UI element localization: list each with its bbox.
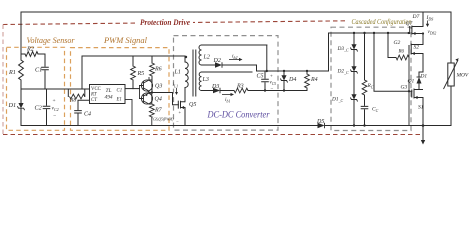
wire L2 top drop: [266, 45, 268, 72]
transformer core: [193, 50, 196, 96]
svg-text:R6: R6: [398, 50, 405, 55]
label C2: [35, 105, 42, 112]
diode D5: [318, 123, 325, 129]
label Q4: [155, 96, 162, 103]
label R2: [26, 46, 34, 53]
svg-text:R1: R1: [8, 69, 16, 76]
svg-text:D4: D4: [288, 76, 296, 83]
svg-text:L3: L3: [202, 77, 209, 83]
transistor S2: [409, 44, 423, 58]
svg-text:L2: L2: [203, 55, 210, 61]
wire Q7 drain to rail: [422, 12, 424, 27]
svg-text:Q5: Q5: [189, 102, 196, 108]
wire VS mid node: [21, 88, 90, 90]
svg-text:D1: D1: [8, 102, 17, 109]
wire S1 source to rail: [422, 98, 425, 127]
svg-text:D7: D7: [412, 14, 420, 20]
label Q5: [189, 102, 196, 108]
svg-text:CT: CT: [91, 98, 97, 103]
label IDS arrow: [426, 15, 434, 27]
label vC5 polarity: [270, 75, 277, 93]
label C1: [35, 67, 42, 74]
diode D3: [213, 88, 234, 94]
label R4: [310, 76, 318, 83]
svg-text:vC2: vC2: [52, 106, 59, 112]
svg-text:E1: E1: [116, 98, 122, 103]
svg-text:−: −: [53, 114, 56, 120]
wire RG2 to rail: [408, 58, 410, 126]
resistor RG2: [396, 55, 409, 60]
svg-text:C5: C5: [257, 74, 264, 80]
resistor R3: [234, 88, 307, 93]
transistor Q3: [140, 77, 153, 93]
label Q7: [406, 21, 413, 27]
svg-text:−: −: [271, 87, 274, 92]
wire left column top: [20, 12, 22, 54]
label C5: [257, 74, 264, 80]
resistor R6: [150, 56, 155, 80]
wire Q7 source to S2 drain: [422, 34, 424, 45]
capacitor C2: [43, 89, 51, 126]
wire E1 to ground: [125, 99, 132, 125]
svg-text:R2: R2: [26, 46, 34, 53]
transistor Q4: [140, 93, 153, 104]
dc-dc converter dashed box: [174, 36, 279, 131]
resistor R5: [131, 56, 136, 89]
wire zener chain column: [353, 32, 355, 127]
label vGS Q5: [151, 110, 182, 125]
transistor Q5: [178, 101, 185, 109]
wire bottom rail right: [325, 125, 451, 127]
label D1C: [331, 97, 344, 103]
label D1 cascade: [420, 73, 428, 79]
wire G2 branch: [387, 32, 396, 58]
ic U1 pin labels: [90, 87, 122, 103]
label G3: [401, 85, 408, 91]
label MOV: [456, 73, 469, 79]
title PWM Signal: [103, 36, 148, 45]
label D3C: [337, 46, 350, 52]
svg-text:+: +: [179, 110, 182, 115]
svg-text:PWM Signal: PWM Signal: [103, 36, 148, 45]
inductor L1 primary: [185, 56, 188, 88]
label R6: [154, 67, 162, 73]
title DC-DC Converter: [207, 110, 270, 121]
label D3: [211, 84, 219, 90]
cascaded configuration dashed box: [331, 27, 411, 130]
label L3: [202, 77, 209, 83]
ic U1 TL494 box: [90, 85, 126, 104]
svg-text:G2: G2: [394, 40, 401, 46]
svg-text:G3: G3: [401, 85, 408, 91]
svg-text:Cascaded Configuration: Cascaded Configuration: [352, 18, 412, 26]
label D2: [213, 58, 221, 64]
label L2: [203, 55, 210, 61]
label vC2 polarity: [52, 98, 59, 120]
capacitor C4: [74, 100, 89, 125]
transistor Q7: [410, 26, 423, 36]
resistor RC column: [363, 32, 365, 80]
wire totem output node: [151, 80, 178, 105]
zener D3C: [350, 44, 357, 51]
label D4: [288, 76, 296, 83]
svg-text:R4: R4: [310, 76, 318, 83]
label R1: [8, 69, 16, 76]
svg-text:TL: TL: [106, 88, 112, 94]
svg-text:VCC: VCC: [91, 87, 101, 92]
svg-text:Q7: Q7: [406, 21, 413, 27]
resistor R1: [19, 54, 24, 89]
terminal arrow bottom: [421, 126, 425, 145]
svg-text:R7: R7: [154, 108, 163, 114]
svg-text:S2: S2: [414, 45, 420, 51]
svg-text:Q3: Q3: [155, 84, 162, 90]
svg-text:IDS: IDS: [426, 15, 434, 21]
svg-text:L1: L1: [174, 70, 181, 76]
transistor S1: [412, 89, 423, 100]
wire C1 pin net: [125, 88, 140, 90]
zener D4: [280, 70, 287, 92]
capacitor C5: [261, 71, 269, 92]
svg-text:C1: C1: [35, 67, 42, 74]
wire top rail: [21, 11, 451, 13]
svg-text:DC-DC Converter: DC-DC Converter: [207, 110, 270, 121]
svg-text:Protection Drive: Protection Drive: [140, 17, 190, 27]
capacitor CC: [361, 95, 369, 127]
label Q3: [155, 84, 162, 90]
varistor MOV: [444, 58, 459, 89]
wire gate feed line: [329, 32, 410, 34]
resistor R4: [305, 70, 310, 91]
diode D2: [215, 62, 222, 68]
label CC: [372, 107, 379, 113]
label S1: [418, 105, 424, 111]
label R8: [69, 98, 76, 104]
svg-text:D2: D2: [213, 58, 221, 64]
wire S2 source down: [419, 54, 423, 78]
label R3: [236, 84, 244, 90]
label S2: [414, 45, 420, 51]
wire plus rail: [222, 65, 329, 71]
wire R8 tap: [68, 89, 85, 97]
svg-text:R8: R8: [69, 98, 76, 104]
inductor L2 secondary: [199, 45, 267, 65]
svg-text:C1: C1: [117, 89, 123, 94]
svg-text:R6: R6: [154, 67, 162, 73]
wire base column: [139, 86, 141, 99]
resistor R7: [149, 91, 154, 125]
svg-text:494: 494: [105, 95, 113, 101]
svg-text:MOV: MOV: [456, 73, 469, 79]
label R5: [137, 71, 145, 77]
wire G3 feed column: [373, 32, 412, 93]
wire plus riser to gate line: [328, 33, 330, 71]
label G2: [394, 40, 401, 46]
svg-text:Q4: Q4: [155, 96, 162, 103]
zener D2C: [350, 66, 357, 73]
title Protection Drive: [138, 16, 193, 28]
svg-text:vC5: vC5: [270, 81, 277, 86]
resistor R8: [70, 94, 85, 99]
wire Q5 source: [184, 108, 186, 126]
inductor L3 secondary: [199, 72, 252, 91]
label R7: [154, 108, 163, 114]
svg-text:Voltage Sensor: Voltage Sensor: [27, 36, 76, 45]
label D1: [8, 102, 17, 109]
label D5: [316, 119, 324, 125]
label RC: [367, 83, 374, 89]
svg-text:D5: D5: [316, 119, 324, 125]
diode D1 cascade: [417, 77, 422, 90]
svg-text:+: +: [53, 98, 56, 104]
label iL1 arrow: [173, 82, 179, 95]
pwm signal dashed box: [71, 48, 170, 131]
voltage sensor dashed box: [7, 47, 65, 130]
resistor R2: [21, 52, 45, 57]
svg-text:D3: D3: [211, 84, 219, 90]
svg-text:C4: C4: [84, 111, 91, 118]
svg-text:C2: C2: [35, 105, 42, 112]
zener D1: [17, 89, 24, 126]
svg-text:R5: R5: [137, 71, 145, 77]
wire Q5 drain: [184, 88, 186, 102]
svg-text:R3: R3: [236, 84, 244, 90]
label RG2: [398, 50, 405, 55]
label ib2 arrow: [229, 54, 243, 62]
label D7: [412, 14, 420, 20]
title Cascaded Configuration: [352, 18, 412, 26]
zener D1C: [350, 94, 357, 101]
wire bottom rail left: [21, 125, 318, 127]
svg-text:+: +: [270, 75, 273, 80]
label D2C: [337, 69, 350, 75]
varistor MOV branch: [450, 12, 452, 126]
protection drive dashed box: [3, 21, 422, 135]
svg-text:RT: RT: [90, 93, 97, 98]
title Voltage Sensor: [27, 36, 76, 45]
resistor RC: [362, 80, 367, 95]
svg-text:D1: D1: [420, 73, 428, 79]
capacitor C1: [41, 54, 49, 89]
label Q1: [408, 79, 415, 85]
wire pwm power rail: [82, 55, 185, 57]
label ib1 arrow: [222, 93, 234, 103]
label L1: [174, 70, 181, 76]
wire pwm vcc rail riser: [81, 56, 83, 89]
label C4: [84, 111, 91, 118]
dot L1 top: [185, 56, 187, 58]
label vDS2: [422, 29, 436, 35]
svg-text:−: −: [176, 120, 179, 125]
